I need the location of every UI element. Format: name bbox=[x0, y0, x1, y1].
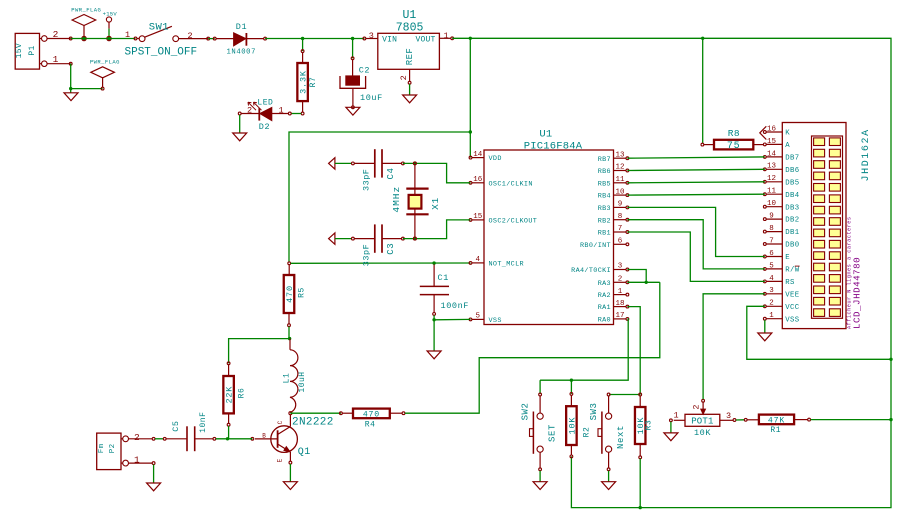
svg-text:PWR_FLAG: PWR_FLAG bbox=[71, 7, 101, 14]
svg-text:U1: U1 bbox=[539, 129, 552, 141]
svg-text:C4: C4 bbox=[386, 167, 396, 179]
svg-text:SET: SET bbox=[547, 424, 557, 442]
svg-text:R3: R3 bbox=[645, 420, 654, 431]
svg-text:8: 8 bbox=[618, 213, 623, 221]
svg-text:3: 3 bbox=[726, 411, 731, 421]
svg-text:RA1: RA1 bbox=[598, 304, 611, 312]
svg-text:DB4: DB4 bbox=[785, 192, 799, 200]
svg-text:POT1: POT1 bbox=[691, 417, 713, 427]
svg-text:22K: 22K bbox=[225, 386, 235, 404]
svg-text:16: 16 bbox=[767, 125, 777, 133]
svg-text:SPST_ON_OFF: SPST_ON_OFF bbox=[125, 46, 198, 58]
svg-text:6: 6 bbox=[618, 238, 623, 246]
svg-text:16: 16 bbox=[473, 176, 483, 184]
svg-text:R7: R7 bbox=[309, 77, 318, 88]
svg-text:E: E bbox=[277, 458, 284, 462]
svg-text:DB7: DB7 bbox=[785, 155, 799, 163]
svg-text:R2: R2 bbox=[583, 427, 592, 438]
svg-text:15: 15 bbox=[767, 138, 777, 146]
svg-text:10K: 10K bbox=[694, 428, 711, 438]
svg-text:DB3: DB3 bbox=[785, 204, 799, 212]
svg-text:10uH: 10uH bbox=[298, 371, 307, 392]
svg-text:R1: R1 bbox=[770, 426, 781, 435]
svg-text:Fm: Fm bbox=[98, 443, 106, 453]
svg-text:RB1: RB1 bbox=[598, 230, 611, 238]
svg-text:R6: R6 bbox=[238, 388, 247, 399]
svg-text:2: 2 bbox=[618, 276, 623, 284]
svg-text:47K: 47K bbox=[768, 416, 785, 425]
svg-text:1: 1 bbox=[278, 106, 283, 116]
svg-text:Q1: Q1 bbox=[298, 447, 311, 458]
svg-text:100nF: 100nF bbox=[441, 301, 470, 311]
svg-text:6: 6 bbox=[769, 250, 774, 258]
svg-text:2: 2 bbox=[247, 106, 252, 116]
svg-text:17: 17 bbox=[615, 312, 624, 320]
svg-text:4: 4 bbox=[769, 275, 774, 283]
svg-text:C3: C3 bbox=[386, 243, 396, 255]
svg-text:2: 2 bbox=[134, 432, 140, 443]
svg-text:Next: Next bbox=[616, 425, 626, 449]
svg-text:33pF: 33pF bbox=[361, 169, 371, 191]
svg-text:2: 2 bbox=[187, 31, 192, 41]
svg-text:4: 4 bbox=[476, 256, 481, 264]
svg-text:DB6: DB6 bbox=[785, 167, 799, 175]
svg-text:33pF: 33pF bbox=[361, 244, 371, 266]
svg-text:R5: R5 bbox=[298, 287, 307, 298]
svg-text:RB4: RB4 bbox=[598, 193, 611, 201]
svg-text:VDD: VDD bbox=[489, 155, 502, 163]
svg-text:3: 3 bbox=[618, 263, 623, 271]
svg-text:SW1: SW1 bbox=[149, 21, 169, 33]
svg-text:DB1: DB1 bbox=[785, 229, 799, 237]
svg-text:PIC16F84A: PIC16F84A bbox=[524, 141, 583, 153]
svg-text:DB5: DB5 bbox=[785, 179, 799, 187]
svg-text:RB2: RB2 bbox=[598, 217, 611, 225]
svg-text:5: 5 bbox=[476, 313, 481, 321]
svg-text:RB6: RB6 bbox=[598, 168, 611, 176]
svg-text:4MHz: 4MHz bbox=[391, 186, 402, 213]
svg-text:C5: C5 bbox=[171, 420, 181, 431]
svg-text:A: A bbox=[785, 142, 790, 150]
svg-text:3.3K: 3.3K bbox=[299, 70, 309, 94]
svg-text:2: 2 bbox=[691, 404, 701, 409]
svg-text:X1: X1 bbox=[430, 197, 441, 210]
svg-text:470: 470 bbox=[285, 285, 295, 303]
svg-text:RB5: RB5 bbox=[598, 180, 611, 188]
svg-text:12: 12 bbox=[615, 164, 624, 172]
svg-text:RA4/T0CKI: RA4/T0CKI bbox=[571, 267, 611, 275]
svg-text:U1: U1 bbox=[402, 9, 416, 22]
svg-text:RB7: RB7 bbox=[598, 156, 611, 164]
svg-text:R4: R4 bbox=[365, 420, 376, 429]
svg-text:R8: R8 bbox=[728, 128, 740, 139]
svg-text:RA0: RA0 bbox=[598, 317, 611, 325]
svg-text:2: 2 bbox=[399, 75, 409, 80]
svg-text:B: B bbox=[262, 433, 266, 440]
svg-text:+15V: +15V bbox=[103, 11, 118, 18]
svg-text:DB2: DB2 bbox=[785, 217, 799, 225]
svg-text:470: 470 bbox=[363, 410, 380, 419]
svg-text:P2: P2 bbox=[109, 444, 117, 454]
svg-text:VIN: VIN bbox=[382, 36, 397, 45]
svg-text:9: 9 bbox=[769, 213, 774, 221]
svg-text:VCC: VCC bbox=[785, 304, 799, 312]
svg-text:R/W: R/W bbox=[785, 267, 799, 275]
svg-text:1: 1 bbox=[673, 411, 678, 421]
svg-text:E: E bbox=[785, 254, 790, 262]
svg-text:9: 9 bbox=[618, 201, 623, 209]
svg-text:NOT_MCLR: NOT_MCLR bbox=[489, 261, 524, 269]
svg-text:1: 1 bbox=[125, 30, 130, 40]
svg-text:REF: REF bbox=[405, 48, 415, 65]
svg-text:SW3: SW3 bbox=[589, 403, 599, 421]
svg-text:15V: 15V bbox=[15, 43, 24, 58]
svg-text:D1: D1 bbox=[236, 22, 247, 32]
svg-text:P1: P1 bbox=[28, 45, 37, 55]
svg-text:13: 13 bbox=[615, 151, 625, 159]
svg-text:LED: LED bbox=[257, 99, 273, 108]
svg-text:8: 8 bbox=[769, 225, 774, 233]
svg-text:SW2: SW2 bbox=[521, 403, 531, 421]
svg-text:D2: D2 bbox=[259, 122, 270, 132]
svg-text:14: 14 bbox=[473, 151, 483, 159]
svg-text:7805: 7805 bbox=[396, 21, 424, 34]
svg-text:JHD162A: JHD162A bbox=[861, 128, 872, 181]
svg-text:10uF: 10uF bbox=[360, 93, 383, 103]
svg-text:15: 15 bbox=[473, 213, 483, 221]
svg-text:VSS: VSS bbox=[785, 316, 799, 324]
svg-text:10nF: 10nF bbox=[199, 412, 208, 433]
svg-text:VSS: VSS bbox=[489, 317, 502, 325]
svg-text:RA3: RA3 bbox=[598, 280, 611, 288]
svg-text:7: 7 bbox=[769, 237, 774, 245]
svg-text:2: 2 bbox=[769, 300, 774, 308]
svg-text:C1: C1 bbox=[438, 273, 449, 283]
svg-text:75: 75 bbox=[727, 141, 741, 152]
svg-text:13: 13 bbox=[767, 163, 777, 171]
svg-text:5: 5 bbox=[769, 262, 774, 270]
svg-text:18: 18 bbox=[615, 300, 624, 308]
svg-text:1N4007: 1N4007 bbox=[227, 49, 256, 57]
svg-text:10: 10 bbox=[615, 188, 625, 196]
svg-text:RS: RS bbox=[785, 279, 795, 287]
svg-text:12: 12 bbox=[767, 175, 776, 183]
svg-text:11: 11 bbox=[615, 176, 625, 184]
svg-text:DB0: DB0 bbox=[785, 242, 799, 250]
svg-text:11: 11 bbox=[767, 188, 777, 196]
svg-text:1: 1 bbox=[618, 288, 623, 296]
svg-text:10K: 10K bbox=[567, 417, 577, 435]
svg-text:3: 3 bbox=[769, 287, 774, 295]
svg-text:2: 2 bbox=[53, 29, 59, 40]
svg-text:VEE: VEE bbox=[785, 291, 799, 299]
svg-text:C2: C2 bbox=[359, 65, 370, 75]
svg-text:1: 1 bbox=[134, 455, 140, 466]
svg-text:RB0/INT: RB0/INT bbox=[580, 242, 611, 250]
svg-text:K: K bbox=[785, 130, 790, 138]
svg-text:2N2222: 2N2222 bbox=[292, 417, 334, 429]
svg-text:1: 1 bbox=[769, 312, 774, 320]
svg-text:10: 10 bbox=[767, 200, 777, 208]
svg-text:C: C bbox=[277, 420, 284, 424]
svg-text:LCD_JHD44780: LCD_JHD44780 bbox=[851, 257, 862, 329]
svg-text:PWR_FLAG: PWR_FLAG bbox=[90, 59, 120, 66]
svg-text:OSC1/CLKIN: OSC1/CLKIN bbox=[489, 180, 533, 188]
svg-text:RA2: RA2 bbox=[598, 292, 611, 300]
svg-text:VOUT: VOUT bbox=[415, 36, 435, 45]
svg-text:OSC2/CLKOUT: OSC2/CLKOUT bbox=[489, 218, 538, 226]
svg-text:7: 7 bbox=[618, 225, 623, 233]
svg-text:14: 14 bbox=[767, 150, 777, 158]
svg-text:1: 1 bbox=[443, 31, 448, 41]
svg-text:RB3: RB3 bbox=[598, 205, 611, 213]
svg-text:1: 1 bbox=[53, 54, 59, 65]
svg-text:3: 3 bbox=[369, 31, 374, 41]
svg-text:L1: L1 bbox=[283, 373, 292, 384]
